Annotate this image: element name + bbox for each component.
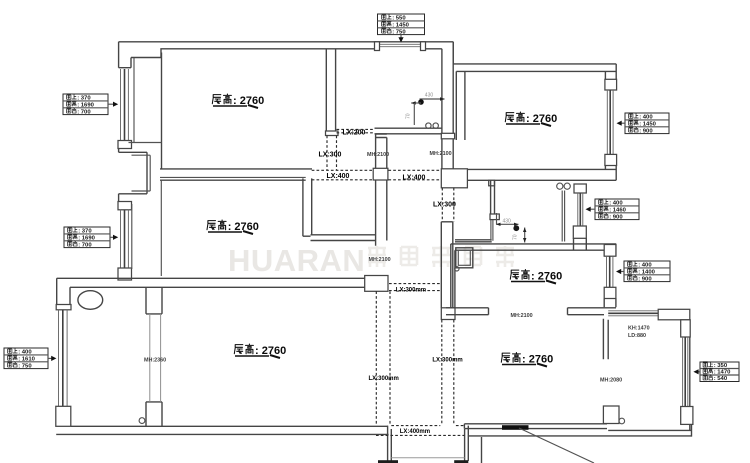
partition living/dining stubs (146, 287, 162, 426)
window W5 (room3 right wall) (605, 79, 617, 165)
svg-text:KH:1470: KH:1470 (628, 326, 650, 332)
svg-text:LX:300mm: LX:300mm (432, 358, 462, 364)
svg-text:MH:2100: MH:2100 (369, 257, 391, 263)
closet strip room1 (129, 53, 162, 169)
svg-text:: 700: : 700 (78, 242, 92, 248)
window WE (bathroom2 east) (573, 184, 586, 250)
window label box right3 (616, 261, 670, 282)
dim annotation bathroom1 (406, 93, 445, 125)
svg-text:: 1610: : 1610 (18, 356, 35, 362)
svg-text:: 540: : 540 (714, 376, 728, 382)
wall bedroom5 bottom (446, 308, 616, 315)
svg-text:LX:400: LX:400 (403, 175, 426, 182)
svg-text:70: 70 (513, 234, 519, 240)
dashed beam LX:200 (337, 129, 375, 136)
svg-text:: 900: : 900 (639, 128, 653, 134)
room label bottom-right 2760 (501, 353, 553, 367)
wall bedroom5 right (604, 244, 616, 256)
door sill black (bedroom7) (502, 425, 529, 430)
dashed beam LX:400 entrance (376, 426, 465, 436)
wall bathroom2 left (490, 180, 499, 219)
svg-text:MH:2100: MH:2100 (511, 313, 533, 319)
wall room3 bottom (465, 169, 616, 180)
block room3/bathroom2 junction (489, 180, 495, 186)
window W2 (left wall, top-left room) (118, 69, 132, 149)
ellipse table symbol (78, 291, 103, 310)
svg-text:430: 430 (425, 93, 434, 99)
circle balcony drain (619, 418, 625, 424)
window W7 (balcony right) (681, 337, 693, 424)
wall living bottom (56, 426, 388, 434)
svg-text:: 1450: : 1450 (639, 121, 656, 127)
svg-text:: 900: : 900 (638, 276, 652, 282)
wall living room top (57, 278, 366, 287)
notch (left recess) (119, 149, 151, 202)
balcony right wall (681, 320, 691, 431)
wardrobe symbol (bedroom5) (455, 248, 473, 271)
svg-text:MH:2100: MH:2100 (367, 152, 389, 158)
window W1 (top, bathroom) (375, 42, 426, 51)
circles bathroom1 (426, 123, 439, 128)
svg-text:: 750: : 750 (392, 29, 406, 35)
room label top-right 2760 (505, 112, 557, 126)
wall dining west (376, 134, 387, 246)
wall room3 right (605, 64, 616, 180)
svg-text:LX:300: LX:300 (433, 202, 456, 209)
wall living left (56, 278, 71, 310)
svg-text:LX:200: LX:200 (343, 130, 366, 137)
wall bedroom5 top (451, 244, 616, 250)
circles bathroom2 (557, 183, 571, 189)
svg-text:LX:300mm: LX:300mm (369, 376, 399, 382)
window label box top (378, 14, 425, 43)
svg-text:: 400: : 400 (639, 115, 653, 121)
wall kitchen east lower (441, 222, 455, 320)
window label box left2 (64, 227, 118, 248)
wall left outer (top-left room) (119, 42, 131, 68)
wall bathroom right / step (441, 42, 454, 169)
vestibule walls (378, 426, 482, 463)
room label living 2760 (234, 344, 286, 358)
svg-text:: 370: : 370 (78, 229, 92, 235)
svg-text:: 1450: : 1450 (392, 22, 409, 28)
wall room1 right (326, 49, 339, 136)
svg-text:: 1690: : 1690 (78, 235, 95, 241)
dashed beam LX:300mm corridor horizontal (389, 284, 441, 294)
jamb block A (hallway) (373, 168, 388, 180)
svg-text:MH:2100: MH:2100 (430, 151, 452, 157)
svg-text:: 550: : 550 (392, 16, 406, 22)
balcony top window (608, 309, 690, 320)
jamb block C (living entry) (365, 276, 388, 292)
dashed beam LX:300 (room1 door) (319, 136, 342, 171)
svg-text:LX:300: LX:300 (319, 152, 342, 159)
window W3 (left wall, mid-left room) (118, 202, 132, 281)
dashed beam P2 vertical (corridor east) (432, 320, 462, 425)
svg-text:: 370: : 370 (77, 96, 91, 102)
svg-text:LX:400: LX:400 (327, 173, 350, 180)
wall bathroom bottom (375, 128, 442, 134)
room label mid-right 2760 (510, 270, 562, 284)
jamb block B (dining east) (441, 169, 467, 188)
svg-text:HUARAN: HUARAN (228, 243, 365, 278)
svg-text:: 700: : 700 (77, 109, 91, 115)
svg-text:LD:880: LD:880 (628, 333, 646, 339)
svg-text:: 350: : 350 (714, 363, 728, 369)
svg-text:: 1470: : 1470 (714, 370, 731, 376)
dashed beam LX:400 west (312, 170, 373, 180)
svg-text:MH:2080: MH:2080 (600, 378, 622, 384)
wall room3 top (453, 42, 616, 72)
window label box right4 (693, 362, 739, 383)
dashed beam LX:400 east (388, 170, 441, 181)
balcony window note KH:1470 LD:880 (628, 326, 650, 339)
wall top outer (left section) (119, 42, 454, 58)
kitchen nook lower wall (455, 220, 493, 242)
svg-text:: 900: : 900 (609, 214, 623, 220)
svg-text:: 400: : 400 (638, 263, 652, 269)
svg-text:: 1690: : 1690 (77, 102, 94, 108)
svg-text:: 400: : 400 (18, 350, 32, 356)
dashed beam P1 vertical (corridor west) (369, 291, 399, 425)
svg-text:430: 430 (503, 219, 512, 225)
window label box left1 (63, 94, 118, 115)
svg-text:: 1400: : 1400 (638, 269, 655, 275)
svg-text:: 1460: : 1460 (609, 207, 626, 213)
svg-text:70: 70 (406, 113, 412, 119)
watermark (228, 243, 514, 278)
wall room3 left (456, 71, 465, 140)
window W4 (living left wall) (56, 310, 71, 427)
window label box right1 (617, 113, 670, 134)
svg-text:MH:2360: MH:2360 (144, 358, 166, 364)
svg-text:LX:300mm: LX:300mm (396, 287, 426, 293)
wall kitchen-nook east dashed beam (442, 188, 454, 222)
wall bathroom2 right edge (562, 191, 564, 242)
dim annotation bathroom2 (496, 213, 526, 243)
window W6 (bedroom5 right) (604, 245, 616, 308)
wall room2 right (303, 178, 376, 240)
room label top-left 2760 (212, 94, 264, 108)
wall bedroom5 left (451, 244, 455, 308)
window label box right2 (586, 199, 640, 220)
leader diagonal line (519, 428, 594, 463)
balcony bottom wall (608, 424, 691, 437)
dashed beam LX:300 mid (433, 202, 456, 209)
wall bedroom7 right (603, 319, 619, 424)
svg-text:: 750: : 750 (18, 363, 32, 369)
wall bedroom7 bottom (464, 424, 691, 436)
wall room1/room2 divider (160, 169, 312, 180)
window label box left3 (4, 348, 56, 369)
room label mid-left 2760 (207, 220, 259, 234)
svg-text:: 400: : 400 (609, 201, 623, 207)
closet strip room2 (132, 180, 162, 276)
svg-text:LX:400mm: LX:400mm (400, 429, 430, 435)
circle living door (139, 418, 145, 424)
